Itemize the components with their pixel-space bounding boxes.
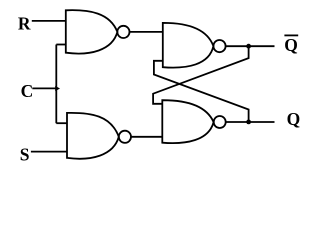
wire C branch vertical — [55, 45, 57, 124]
nand gate U1 top-left body — [66, 10, 118, 53]
node Qbar junction — [246, 44, 251, 49]
wire C input — [32, 87, 56, 89]
overline of Qbar — [284, 34, 298, 36]
svg-text:C: C — [21, 81, 34, 101]
svg-text:Q: Q — [287, 109, 301, 129]
nand gate U3 top-right body — [163, 23, 214, 68]
svg-text:R: R — [18, 14, 31, 34]
node Q junction — [246, 120, 251, 125]
nand gate U2 bottom-left body — [67, 113, 119, 159]
nand gate U3 bubble — [213, 40, 225, 52]
wire U1 output to U3 — [130, 31, 163, 33]
nand gate U1 bubble — [117, 26, 129, 38]
wire C to gate U1 lower input — [56, 44, 66, 46]
wire feedback Qbar to U4 upper input — [153, 46, 249, 104]
nand gate U4 bottom-right body — [162, 100, 213, 143]
nand gate U2 bubble — [119, 131, 131, 143]
wire C to gate U2 upper input — [56, 122, 67, 124]
wire U2 output to U4 — [131, 136, 162, 138]
junction arrow C — [55, 86, 60, 91]
wire U4 output to Q — [226, 121, 275, 123]
wire feedback Q to U3 lower input — [154, 61, 249, 122]
wire S input — [31, 151, 67, 153]
svg-text:Q: Q — [284, 35, 298, 55]
wire U3 output to Qbar — [226, 45, 275, 47]
wire R input — [32, 20, 66, 22]
svg-text:S: S — [20, 144, 30, 164]
nand gate U4 bubble — [214, 116, 226, 128]
